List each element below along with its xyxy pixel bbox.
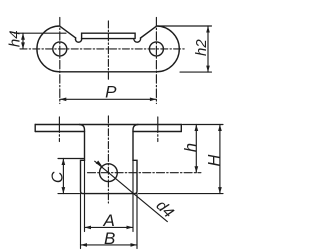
right hole: [149, 42, 163, 56]
plate outline rounded ends and bottom edge: [37, 26, 179, 72]
h dimension line: [195, 125, 197, 173]
hat walls and clamp box outline: [80, 125, 139, 194]
svg-text:C: C: [49, 171, 66, 183]
front centerline right flange hole: [157, 117, 159, 142]
P dimension line: [60, 98, 157, 100]
d4 leader line: [95, 161, 168, 221]
h2 extension bottom: [180, 71, 212, 73]
h2 dimension line: [207, 26, 209, 72]
bridge raised tab: [82, 33, 136, 38]
h4 dimension line: [22, 33, 24, 49]
h2 extension top: [158, 25, 212, 27]
right U notch fillet: [134, 38, 141, 42]
centerline vertical right hole: [155, 18, 157, 104]
h2 dimension arrows: [206, 26, 210, 33]
B dimension arrows: [81, 243, 88, 247]
P dimension arrows: [60, 98, 67, 102]
A extension line left: [84, 160, 86, 231]
H top extension line: [183, 124, 224, 126]
C extension line top: [58, 158, 84, 160]
left flange bottom edge: [35, 131, 84, 133]
left diagonal from arc top: [60, 27, 75, 38]
svg-text:B: B: [104, 229, 115, 248]
A dimension arrows: [85, 226, 92, 230]
svg-text:h: h: [182, 143, 200, 152]
line under bridge: [82, 38, 134, 40]
centerline vertical middle top view: [107, 21, 109, 81]
left hole: [53, 42, 67, 56]
top strip top edge: [35, 124, 181, 126]
left U notch fillet: [75, 38, 81, 42]
B extension line right: [136, 194, 138, 249]
A dimension line: [85, 226, 134, 228]
front centerline left flange hole: [58, 117, 60, 142]
right flange end: [180, 125, 182, 132]
h4 extension line: [15, 32, 67, 34]
B dimension line: [81, 244, 138, 246]
h4 dimension arrows: [21, 33, 25, 40]
centerline vertical left hole: [59, 18, 61, 104]
front hole d4: [100, 164, 118, 182]
svg-text:H: H: [205, 155, 223, 167]
svg-text:h2: h2: [193, 39, 210, 56]
right diagonal to arc top: [141, 27, 156, 38]
C dimension arrows: [62, 159, 66, 166]
C extension line bottom: [58, 193, 80, 195]
H bottom extension line: [139, 193, 224, 195]
H dimension arrows: [218, 125, 222, 132]
svg-text:h4: h4: [7, 30, 24, 47]
left flange end: [34, 125, 36, 132]
h dimension arrows: [195, 125, 199, 132]
A extension line right: [132, 160, 134, 231]
H dimension line: [219, 125, 221, 194]
svg-text:A: A: [103, 211, 115, 230]
front centerline middle: [107, 116, 109, 203]
d4 leader arrow: [96, 161, 103, 167]
svg-text:P: P: [105, 82, 117, 101]
C dimension line: [62, 159, 64, 194]
B extension line left: [80, 194, 82, 249]
front hole centerline horizontal: [88, 172, 201, 174]
right flange bottom edge: [133, 131, 181, 133]
centerline horizontal through holes: [20, 48, 186, 50]
